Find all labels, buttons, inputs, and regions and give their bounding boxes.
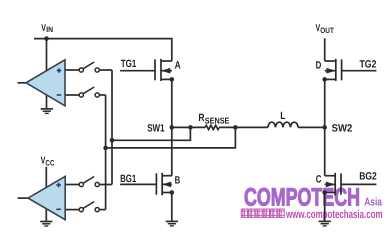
switch S3 (79, 177, 99, 187)
logo tagline CJK glyph 4 (263, 209, 269, 217)
wire node A to node B vertical (171, 79, 173, 175)
node SW1 dot (170, 125, 175, 130)
switch S1 (79, 62, 99, 72)
svg-text:TG2: TG2 (360, 58, 377, 70)
wire U1 ground stem (46, 95, 48, 108)
wire vertical plus-sense bus (111, 70, 113, 185)
transistor Q3 TG2 gate line (341, 59, 343, 80)
wire switch S4 lead (99, 209, 105, 211)
svg-text:IN: IN (46, 25, 53, 34)
svg-text:A: A (175, 60, 181, 72)
svg-text:TG1: TG1 (121, 58, 137, 70)
ground below U1 (41, 109, 53, 114)
wire plus-sense to RSENSE left tap (112, 127, 190, 140)
svg-text:Asia: Asia (364, 196, 382, 208)
wire U1 + input lead (65, 69, 79, 71)
node RSENSE left tap dot (188, 125, 193, 130)
svg-text:SW1: SW1 (147, 122, 165, 134)
wire U2 - input lead (65, 209, 79, 211)
node minus-sense junction dot (103, 146, 108, 151)
svg-text:OUT: OUT (320, 26, 334, 35)
wire BG1 gate lead (120, 183, 156, 185)
logo tagline CJK glyph 3 (256, 209, 262, 217)
wire node C to ground (324, 193, 326, 221)
resistor RSENSE zigzag (205, 125, 219, 129)
transistor Q1 drain stub (161, 60, 172, 62)
wire RSENSE to inductor (219, 126, 268, 128)
transistor Q2 source stub (162, 192, 172, 194)
svg-text:SW2: SW2 (332, 123, 353, 135)
ground below U2 (40, 222, 52, 227)
wire node B to ground (171, 193, 173, 221)
op-amp U2 minus symbol (56, 208, 61, 210)
transistor Q3 channel line (335, 59, 337, 81)
wire minus-sense to RSENSE right tap (106, 127, 236, 147)
wire VIN stem to op-amp U1 (46, 39, 48, 71)
wire U1 output lead (18, 82, 26, 84)
node VIN junction dot (44, 36, 49, 41)
wire vertical minus-sense bus (105, 95, 107, 210)
node plus-sense junction dot (110, 138, 115, 143)
transistor Q3 source stub (325, 78, 336, 80)
svg-text:BG2: BG2 (359, 171, 377, 183)
transistor Q2 body arrow (162, 182, 171, 188)
transistor Q3 body stub (325, 70, 336, 72)
svg-text:SENSE: SENSE (205, 115, 230, 125)
svg-text:L: L (280, 110, 286, 122)
switch S4 (79, 202, 99, 212)
wire TG1 gate lead (120, 70, 155, 72)
logo tagline CJK glyph 1 (241, 209, 247, 217)
node B dot (170, 190, 175, 195)
svg-text:CC: CC (45, 158, 54, 167)
wire VCC stem to op-amp U2 (45, 167, 47, 188)
logo tagline CJK glyph 5 (271, 209, 277, 217)
wire switch S2 to vertical minus-sense (99, 94, 105, 96)
wire switch S1 to vertical plus-sense (99, 69, 112, 71)
node RSENSE right tap dot (233, 125, 238, 130)
transistor Q1 TG1 gate line (154, 59, 156, 80)
transistor Q3 body arrow (326, 68, 335, 74)
transistor Q4 drain stub (325, 175, 336, 177)
transistor Q4 body arrow (326, 182, 335, 188)
transistor Q1 channel line (160, 59, 162, 81)
wire U2 + input lead (65, 184, 79, 186)
logo tagline CJK glyph 6 (278, 209, 284, 217)
logo tagline CJK glyph 2 (249, 209, 255, 217)
op-amp U1 (26, 60, 65, 106)
ground below Q4 node C (319, 221, 331, 226)
svg-text:COMPOTECH: COMPOTECH (244, 184, 360, 212)
inductor L coils (268, 122, 298, 127)
node C dot (322, 190, 327, 195)
svg-text:C: C (316, 173, 322, 185)
svg-text:BG1: BG1 (120, 173, 136, 185)
wire TG2 gate lead (342, 70, 377, 72)
node SW2 dot (322, 125, 327, 130)
transistor Q1 body stub (161, 70, 172, 72)
transistor Q1 body arrow (161, 68, 170, 74)
wire switch S3 lead (99, 184, 112, 186)
wire U2 ground stem (45, 209, 47, 221)
op-amp U2 (28, 176, 65, 219)
wire node D to node C vertical (324, 79, 326, 175)
transistor Q1 source stub (161, 78, 172, 80)
node D dot (322, 77, 327, 82)
svg-text:www.compotechasia.com: www.compotechasia.com (285, 209, 382, 221)
transistor Q4 channel line (334, 173, 336, 196)
wire SW1 node to RSENSE (172, 126, 205, 128)
transistor Q2 channel line (161, 173, 163, 196)
op-amp U1 minus symbol (57, 94, 62, 96)
wire BG2 gate lead (341, 183, 376, 185)
transistor Q3 drain stub (325, 60, 336, 62)
transistor Q2 drain stub (162, 175, 172, 177)
op-amp U1 plus symbol (57, 68, 62, 73)
wire inductor to SW2 node (298, 126, 325, 128)
wire VOUT stem (324, 38, 326, 61)
node A dot (170, 77, 175, 82)
ground below Q2 node B (166, 221, 178, 226)
switch S2 (79, 87, 99, 97)
transistor Q2 BG1 gate line (155, 173, 157, 194)
svg-text:D: D (316, 60, 322, 72)
transistor Q2 body stub (162, 183, 172, 185)
wire U1 - input lead (65, 94, 79, 96)
transistor Q4 body stub (325, 183, 336, 185)
svg-text:B: B (175, 175, 181, 187)
transistor Q4 BG2 gate line (340, 173, 342, 194)
wire U2 output lead (18, 197, 28, 199)
wire VIN top rail to Q1 drain (34, 39, 172, 61)
transistor Q4 source stub (325, 192, 336, 194)
op-amp U2 plus symbol (56, 183, 61, 188)
